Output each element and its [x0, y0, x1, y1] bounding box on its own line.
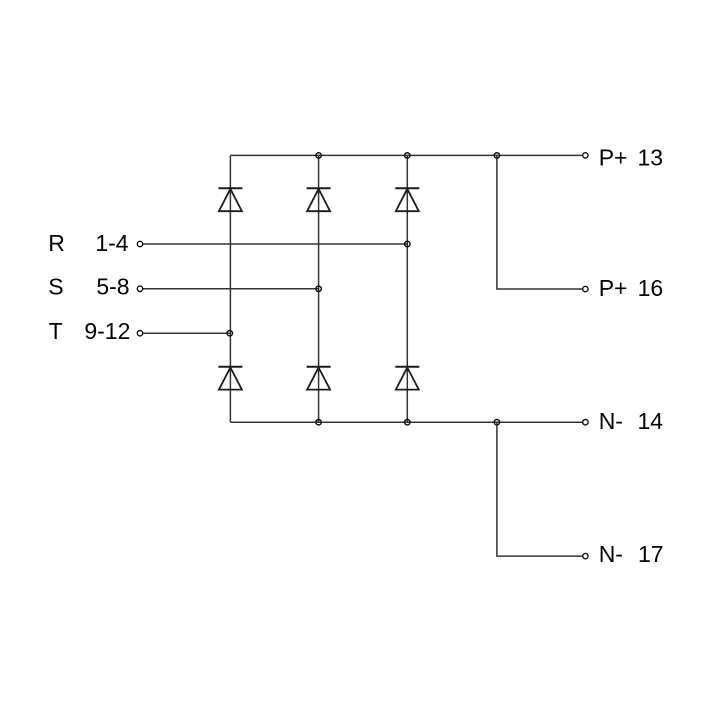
svg-text:P+: P+ — [599, 275, 628, 301]
svg-text:13: 13 — [638, 145, 664, 171]
svg-text:T: T — [49, 318, 63, 344]
svg-text:N-: N- — [599, 541, 623, 567]
svg-text:5-8: 5-8 — [96, 273, 129, 299]
svg-text:17: 17 — [638, 541, 664, 567]
svg-text:N-: N- — [599, 408, 623, 434]
svg-text:S: S — [48, 273, 63, 299]
svg-text:9-12: 9-12 — [84, 318, 130, 344]
svg-text:14: 14 — [638, 408, 664, 434]
svg-text:R: R — [48, 230, 65, 256]
svg-text:1-4: 1-4 — [95, 230, 128, 256]
svg-text:P+: P+ — [599, 145, 628, 171]
svg-text:16: 16 — [638, 275, 664, 301]
